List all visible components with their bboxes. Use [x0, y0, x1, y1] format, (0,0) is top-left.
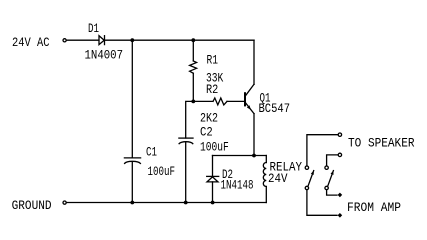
- wire C1 branch down: [131, 40, 133, 158]
- switch arm A: [308, 171, 314, 187]
- wire C2 branch: [186, 101, 194, 138]
- node junction ground D2: [211, 201, 215, 205]
- node pole B: [325, 186, 328, 189]
- node junction ground C1: [130, 201, 134, 205]
- node speaker terminal 2: [338, 153, 341, 156]
- svg-text:24V AC: 24V AC: [12, 35, 50, 50]
- svg-text:24V: 24V: [268, 171, 288, 186]
- svg-text:100uF: 100uF: [148, 164, 176, 179]
- node junction R1/R2/C2: [191, 100, 195, 104]
- wire top rail left: [66, 39, 99, 41]
- diode D1: [99, 36, 105, 45]
- capacitor C2: [179, 138, 193, 144]
- node junction emitter/relay row: [252, 154, 256, 158]
- wire switch B top terminal: [327, 155, 338, 166]
- svg-text:1N4007: 1N4007: [85, 47, 124, 62]
- svg-text:R2: R2: [206, 82, 218, 97]
- wire relay row horizontal: [213, 155, 267, 157]
- node speaker terminal 1: [338, 133, 341, 136]
- wire switch A top to speaker terminal: [307, 135, 338, 166]
- svg-text:GROUND: GROUND: [12, 198, 52, 213]
- resistor R2: [193, 98, 244, 105]
- svg-text:2K2: 2K2: [200, 110, 218, 125]
- wire D2 to ground: [212, 182, 214, 203]
- node from-amp terminal B diamond: [338, 193, 343, 198]
- svg-text:FROM AMP: FROM AMP: [347, 200, 401, 215]
- resistor R1: [190, 40, 197, 101]
- node junction ground C2: [184, 201, 188, 205]
- node from-amp terminal A diamond: [338, 213, 343, 218]
- svg-text:R1: R1: [207, 53, 219, 68]
- switch arm B: [328, 171, 334, 187]
- wire C2 to ground: [185, 142, 187, 203]
- node junction top C1: [130, 38, 134, 42]
- node contact A fixed: [305, 166, 308, 169]
- wire C1 to ground: [131, 162, 133, 203]
- svg-text:C2: C2: [200, 124, 213, 139]
- svg-text:1N4148: 1N4148: [221, 177, 254, 192]
- node contact B fixed: [325, 166, 328, 169]
- svg-text:BC547: BC547: [259, 101, 291, 116]
- svg-text:C1: C1: [146, 144, 157, 159]
- ground rail: [66, 202, 266, 204]
- relay coil K1: [263, 156, 266, 203]
- wire pole B to from-amp: [327, 190, 337, 195]
- wire D2 branch down: [212, 156, 214, 177]
- node 24V AC input terminal: [63, 39, 66, 42]
- node junction top R1: [191, 38, 195, 42]
- diode D2: [207, 176, 219, 182]
- wire pole A to from-amp bottom: [307, 190, 337, 216]
- svg-text:100uF: 100uF: [200, 139, 229, 154]
- node ground terminal: [63, 201, 66, 204]
- transistor Q1: [245, 40, 254, 155]
- wire top rail right: [105, 39, 254, 41]
- capacitor C1: [124, 158, 140, 164]
- node pole A: [305, 186, 308, 189]
- svg-text:TO SPEAKER: TO SPEAKER: [348, 136, 415, 151]
- svg-text:D1: D1: [88, 21, 99, 36]
